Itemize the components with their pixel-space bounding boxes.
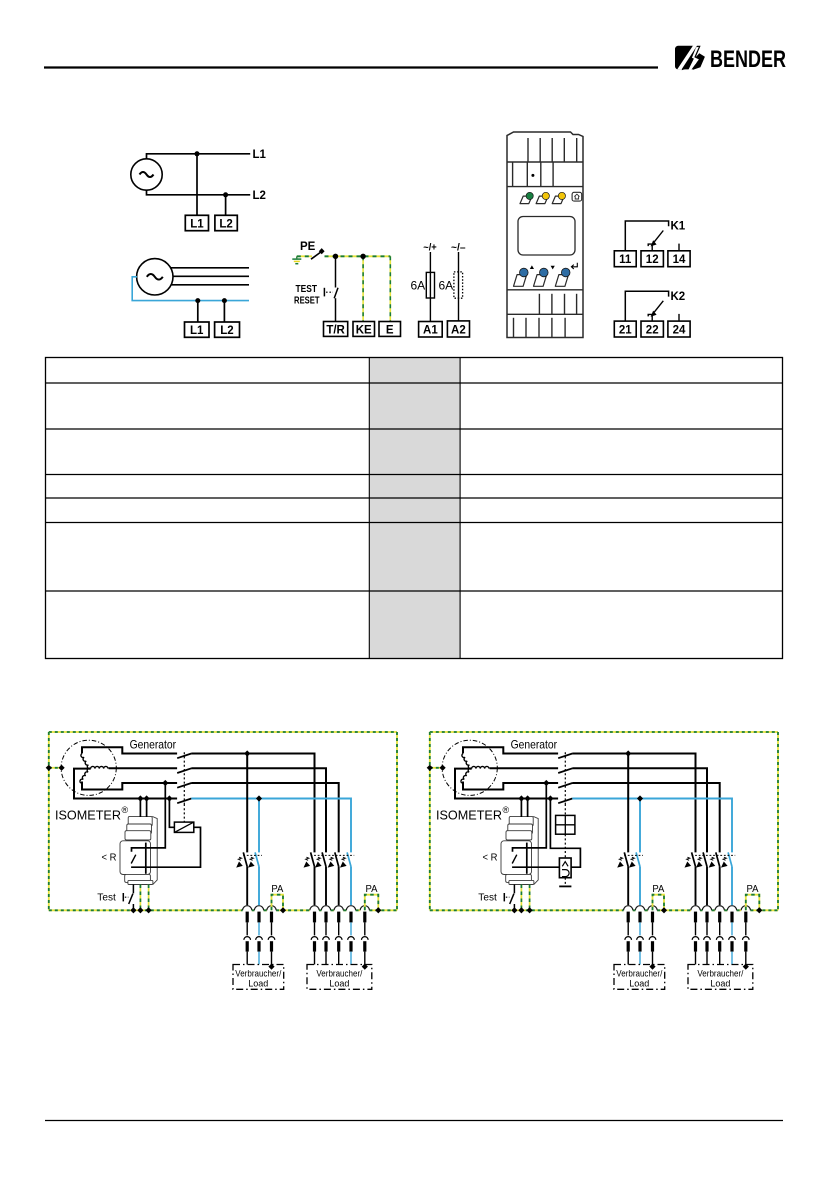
wire N to isometer 2: [146, 799, 148, 818]
wire phase b: [173, 275, 249, 277]
top terminal divider: [507, 161, 583, 163]
button 1 (up): [514, 265, 535, 286]
breaker 1 link (dotted): [243, 854, 262, 856]
svg-text:L2: L2: [220, 325, 233, 337]
circuit breaker feeder 2 pole L2: [315, 852, 326, 867]
terminal 21: [614, 321, 636, 337]
lower terminal slots row B: [514, 318, 566, 338]
load 2 wire N: [348, 912, 355, 965]
relay K1 bracket wire: [625, 221, 668, 251]
circuit diagram 2: generator system with coupling device and voltage relay: [427, 732, 778, 989]
fuse F2 6A (dotted): [454, 272, 463, 298]
node L1 feeder tap: [244, 750, 250, 756]
wire phase L1 from generator: [82, 747, 177, 753]
svg-text:L2: L2: [219, 219, 232, 231]
svg-text:Test: Test: [97, 892, 116, 904]
svg-text:14: 14: [673, 254, 686, 266]
link to coupling device (dotted): [183, 804, 185, 822]
coupling device box (window): [556, 815, 575, 834]
node load 1 PE: [268, 964, 274, 970]
PE switch blade: [311, 251, 322, 259]
terminal L2: [215, 215, 237, 230]
wire L1 feeder 1: [246, 754, 248, 853]
svg-text:KE: KE: [356, 324, 372, 336]
coupling return wire: [157, 827, 200, 867]
load 2 wire L3: [335, 912, 342, 965]
node on N 1: [195, 298, 200, 303]
PA loop 2: [365, 895, 379, 911]
svg-text:L2: L2: [253, 190, 266, 202]
LED 3 (yellow): [552, 192, 565, 203]
PE border bottom with wire hops: [49, 909, 397, 911]
table column lines: [369, 358, 460, 659]
svg-text:L1: L1: [190, 219, 204, 231]
terminal L1: [185, 322, 210, 337]
LED 1 (green): [520, 192, 533, 203]
svg-text:Verbraucher/: Verbraucher/: [235, 969, 281, 979]
svg-text:ISOMETER: ISOMETER: [55, 809, 121, 823]
terminal 12: [641, 251, 663, 267]
table gray column fill: [369, 358, 460, 659]
wire phase L3 from generator: [82, 782, 177, 790]
svg-text:Verbraucher/: Verbraucher/: [316, 969, 362, 979]
load 2 wire L2: [323, 912, 330, 965]
PE border top: [49, 731, 397, 733]
terminal 14 stub: [678, 244, 680, 251]
label ISOMETER: [55, 805, 129, 823]
wire to PE rail crossing: [338, 867, 340, 906]
isometer housing: [120, 816, 157, 884]
svg-text:Load: Load: [248, 979, 268, 989]
PE wire (ge/gn dashed): [297, 255, 312, 257]
node on L1: [195, 151, 200, 156]
svg-text:PE: PE: [300, 241, 316, 253]
main switch link (dotted): [183, 752, 185, 804]
wire to terminal L1: [197, 301, 199, 322]
dotted link window to U<: [564, 834, 566, 858]
Bender logo mark: [675, 46, 705, 70]
A2 wire: [458, 252, 460, 321]
svg-text:21: 21: [619, 325, 632, 337]
node on L2: [223, 192, 228, 197]
svg-text:RESET: RESET: [294, 295, 320, 306]
svg-text:L1: L1: [253, 149, 267, 161]
PE border right: [396, 732, 398, 910]
test switch dotted link: [125, 896, 129, 898]
svg-text:12: 12: [646, 254, 659, 266]
svg-text:6A: 6A: [411, 279, 426, 293]
node L3 measuring tap: [162, 780, 168, 786]
node PE 2 on rail: [146, 907, 152, 913]
wire phase a: [171, 267, 250, 269]
node N coupling tap: [166, 795, 172, 801]
terminal E: [379, 322, 401, 337]
circuit breaker feeder 2 pole N: [340, 852, 351, 867]
voltage relay U< box: [559, 858, 571, 878]
divider above lower terminals: [507, 289, 583, 291]
terminal 22 stub: [648, 314, 652, 321]
wire L3 bus: [191, 783, 338, 852]
test wire upper: [132, 884, 134, 893]
isometer internal wire: [145, 843, 147, 874]
T/R wire lower: [335, 298, 337, 321]
svg-text:A2: A2: [451, 325, 466, 337]
terminal A1: [419, 322, 443, 338]
load box 1: [233, 965, 284, 990]
terminal 11: [614, 251, 636, 267]
svg-text:Load: Load: [329, 979, 349, 989]
node N isometer tap 1: [137, 795, 143, 801]
circuit diagram 1: generator system with coupling device: [46, 732, 397, 989]
circuit breaker feeder 2 pole L3: [328, 852, 339, 867]
wire to terminal L1: [196, 154, 198, 216]
button 3 (enter): [555, 263, 577, 287]
voltage relay wire to isometer: [538, 866, 559, 868]
generator winding 3: [79, 767, 90, 783]
wire to PE rail crossing: [258, 867, 260, 906]
divider bottom: [507, 313, 583, 315]
wire L2 bottom: [147, 190, 251, 195]
node KE tap: [360, 254, 365, 259]
load 1 wire L: [244, 912, 251, 965]
svg-text:T/R: T/R: [326, 324, 345, 336]
wire L1 top: [147, 154, 251, 159]
node test on PE rail: [130, 907, 136, 913]
node T/R tap: [333, 254, 338, 259]
node N feeder tap: [256, 795, 262, 801]
terminal L1: [185, 215, 208, 230]
node PA 2: [375, 907, 381, 913]
svg-text:11: 11: [619, 254, 632, 266]
svg-text:L1: L1: [190, 325, 204, 337]
wire to PE rail crossing: [246, 867, 248, 906]
main switch blade L3: [177, 783, 191, 788]
svg-text:BENDER: BENDER: [710, 46, 786, 73]
wire phase L2 from generator: [109, 767, 178, 769]
terminal 12 stub: [648, 244, 652, 251]
node PE border: [46, 765, 52, 771]
svg-text:Generator: Generator: [130, 738, 177, 752]
internal return wire: [131, 866, 157, 868]
wire N from star point: [74, 769, 177, 799]
table outer border: [46, 358, 783, 659]
node PE 1 on rail: [137, 907, 143, 913]
node generator frame: [59, 765, 65, 771]
load 1 wire PE: [268, 912, 275, 965]
terminal 24: [668, 321, 690, 337]
wire N to coupling relay: [169, 799, 174, 828]
A1 wire upper: [429, 252, 431, 272]
main switch blade L2: [177, 768, 191, 773]
wire N to isometer 1: [139, 799, 141, 818]
PE border left: [48, 732, 50, 910]
load 2 wire PE: [362, 912, 369, 965]
terminal A2: [447, 321, 469, 337]
svg-text:< R: < R: [102, 851, 117, 863]
main switch blade N: [177, 799, 191, 804]
generator winding 1: [80, 753, 90, 769]
svg-text:K1: K1: [671, 221, 686, 233]
terminal 24 stub: [678, 314, 680, 321]
svg-text:A1: A1: [423, 325, 438, 337]
wire phase c: [171, 284, 250, 286]
test button tick: [323, 288, 325, 297]
PE switch contact diamond: [319, 248, 325, 254]
wire to PE rail crossing: [314, 867, 316, 906]
A1 wire lower: [429, 298, 431, 322]
LED 2 (yellow): [536, 192, 549, 203]
fuse F1 6A: [426, 272, 434, 298]
home icon: [572, 192, 582, 201]
terminal 22: [641, 321, 663, 337]
svg-text:6A: 6A: [439, 279, 454, 293]
terminal 14: [668, 251, 690, 267]
isometer PE wire 2: [148, 885, 150, 911]
svg-text:24: 24: [673, 325, 686, 337]
coupling device box (slash): [174, 822, 193, 832]
load 2 wire L1: [311, 912, 318, 965]
PE bus wire (ge/gn dashed): [325, 255, 391, 257]
svg-text:PA: PA: [366, 884, 378, 895]
wire N to voltage relay: [550, 799, 580, 868]
internal test contact blade: [131, 855, 136, 864]
earth bar: [559, 885, 571, 887]
second row slots: [513, 162, 554, 187]
wire to terminal L2: [225, 195, 227, 216]
relay K2 blade: [651, 301, 664, 317]
PA loop 1: [272, 895, 284, 911]
header rule: [44, 66, 658, 68]
isometer PE wire 1: [139, 885, 141, 911]
relay K1 blade: [651, 231, 664, 247]
svg-text:E: E: [386, 324, 394, 336]
label TEST RESET: [294, 284, 320, 306]
device front panel outline: [507, 132, 583, 338]
node N isometer tap 2: [144, 795, 150, 801]
wire N bus (blue): [191, 799, 351, 853]
svg-text:K2: K2: [671, 291, 686, 303]
wire L1 bus: [191, 754, 314, 853]
second divider: [507, 186, 583, 188]
circuit breaker feeder 1 pole N: [248, 852, 259, 867]
svg-text:PA: PA: [271, 884, 283, 895]
terminal L2: [215, 322, 240, 337]
footer rule: [45, 1120, 783, 1122]
generator winding 2: [91, 766, 108, 768]
wire N feeder 1 (blue): [258, 799, 260, 853]
circuit breaker feeder 2 pole L1: [304, 852, 315, 867]
E wire (ge/gn dashed): [389, 256, 391, 321]
relay K2 bracket wire: [625, 291, 668, 321]
svg-text:®: ®: [122, 805, 129, 815]
wire to PE rail crossing: [325, 867, 327, 906]
AC source (3-wire with N): [137, 259, 173, 295]
node N coupling tap (diagram 2): [547, 795, 553, 801]
circuit breaker feeder 1 pole L: [236, 852, 247, 867]
KE wire (ge/gn dashed): [362, 256, 364, 321]
T/R switch blade: [334, 288, 338, 298]
terminal KE: [353, 322, 375, 337]
PE link to generator frame: [49, 767, 62, 769]
table row lines: [46, 383, 783, 591]
test button dotted link: [326, 291, 333, 293]
top terminal slots: [528, 138, 577, 162]
wire L2 bus: [191, 768, 326, 852]
earth symbol: [292, 256, 301, 263]
lower terminal slots row A: [539, 294, 576, 315]
wire to terminal L2: [223, 301, 225, 322]
svg-text:~/+: ~/+: [423, 243, 437, 254]
svg-text:~/–: ~/–: [451, 243, 466, 254]
svg-text:22: 22: [646, 325, 659, 337]
test wire lower: [132, 904, 134, 910]
button 2 (down): [534, 266, 555, 287]
main switch blade L1: [177, 754, 191, 759]
link to coupling device (dotted, diagram 2): [564, 804, 566, 815]
test switch blade: [129, 894, 133, 904]
LCD display: [518, 217, 575, 256]
AC source G (2-wire): [131, 159, 162, 190]
node on N 2: [222, 298, 227, 303]
breaker 2 link (dotted): [311, 854, 355, 856]
node PA 1: [280, 907, 286, 913]
load box 2: [307, 965, 372, 990]
load 1 wire N: [256, 912, 263, 965]
measuring wire from L3: [132, 783, 166, 852]
T/R wire upper: [335, 256, 337, 287]
marker dot: [531, 174, 534, 177]
dotted link U< to earth: [564, 878, 566, 886]
wire to PE rail crossing: [350, 867, 352, 906]
wire N (blue): [132, 277, 249, 301]
terminal T/R: [324, 322, 348, 337]
svg-text:TEST: TEST: [296, 284, 318, 295]
generator circle: [61, 740, 116, 795]
test switch tick: [122, 893, 124, 901]
node load 2 PE: [362, 964, 368, 970]
wire hop arcs: [243, 906, 370, 911]
